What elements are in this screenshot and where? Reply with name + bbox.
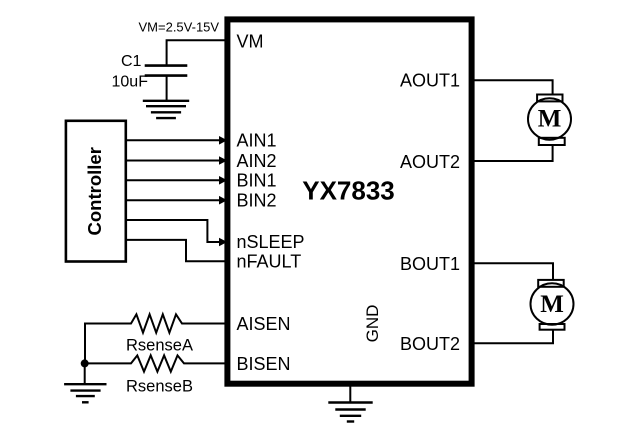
wire BIN1: controller to IC with arrowhead (127, 176, 227, 185)
wire AIN1: controller to IC with arrowhead (127, 136, 227, 145)
resistor RsenseB with leads (85, 355, 224, 371)
svg-text:BIN2: BIN2 (237, 191, 277, 211)
resistor RsenseA with leads (85, 314, 224, 360)
pin label BISEN (237, 354, 291, 374)
svg-text:BISEN: BISEN (237, 354, 291, 374)
svg-text:BOUT1: BOUT1 (400, 254, 460, 274)
pin label AISEN (237, 314, 291, 334)
wire junction to ground (84, 363, 86, 383)
svg-text:AIN2: AIN2 (237, 151, 277, 171)
ground symbol below C1 (144, 101, 188, 118)
svg-text:VM: VM (237, 31, 264, 51)
pin label VM (237, 31, 264, 51)
wire AOUT1 to motor M1 top (475, 80, 553, 94)
wire BOUT1 to motor M2 top (475, 263, 553, 279)
svg-text:nFAULT: nFAULT (237, 252, 302, 272)
wire nSLEEP: controller to IC stepped with arrowhead (127, 220, 227, 246)
pin label BOUT1 (400, 254, 460, 274)
svg-text:BOUT2: BOUT2 (400, 334, 460, 354)
svg-text:nSLEEP: nSLEEP (237, 232, 305, 252)
controller label (rotated) (84, 147, 105, 235)
svg-text:YX7833: YX7833 (302, 176, 395, 206)
pin label AOUT2 (400, 152, 460, 172)
capacitor C1 value label 10uF (112, 74, 149, 91)
svg-text:RsenseA: RsenseA (126, 337, 193, 355)
wire AIN2: controller to IC with arrowhead (127, 156, 227, 165)
wire GND pin to ground (349, 387, 351, 402)
capacitor C1 reference label (121, 53, 142, 70)
wire capacitor C1 bottom to ground (166, 77, 168, 101)
wire VM supply: from capacitor top to VM pin (167, 40, 225, 65)
svg-text:C1: C1 (121, 53, 142, 70)
ground symbol below sense resistors (65, 384, 105, 402)
svg-text:AIN1: AIN1 (237, 131, 277, 151)
pin label AIN2 (237, 151, 277, 171)
capacitor C1 plates (146, 66, 186, 76)
svg-text:M: M (540, 291, 564, 318)
wire BOUT2 to motor M2 bottom (475, 330, 553, 343)
svg-text:10uF: 10uF (112, 74, 149, 91)
ground symbol below IC GND pin (330, 403, 372, 422)
controller box (66, 121, 126, 262)
pin label GND (rotated) (363, 305, 382, 343)
junction node dot at sense resistors (81, 359, 89, 367)
pin label AIN1 (237, 131, 277, 151)
IC U1 part number label YX7833 (302, 176, 395, 206)
svg-text:BIN1: BIN1 (237, 171, 277, 191)
svg-text:AISEN: AISEN (237, 314, 291, 334)
svg-text:AOUT1: AOUT1 (400, 71, 460, 91)
pin label BOUT2 (400, 334, 460, 354)
wire AOUT2 to motor M1 bottom (475, 145, 553, 161)
net label VM=2.5V-15V (139, 20, 220, 35)
resistor RsenseA label (126, 337, 193, 355)
IC U1 YX7833 body (227, 19, 471, 383)
pin label nSLEEP (237, 232, 305, 252)
motor M1 (528, 95, 571, 146)
wire nFAULT: controller to IC stepped (127, 240, 224, 261)
motor M2 (531, 280, 574, 330)
svg-text:RsenseB: RsenseB (126, 378, 193, 396)
pin label BIN1 (237, 171, 277, 191)
pin label BIN2 (237, 191, 277, 211)
svg-text:VM=2.5V-15V: VM=2.5V-15V (139, 20, 220, 35)
resistor RsenseB label (126, 378, 193, 396)
svg-text:M: M (538, 106, 562, 133)
svg-text:AOUT2: AOUT2 (400, 152, 460, 172)
svg-text:GND: GND (363, 305, 382, 343)
pin label nFAULT (237, 252, 302, 272)
svg-text:Controller: Controller (84, 147, 105, 235)
wire BIN2: controller to IC with arrowhead (127, 196, 227, 205)
pin label AOUT1 (400, 71, 460, 91)
